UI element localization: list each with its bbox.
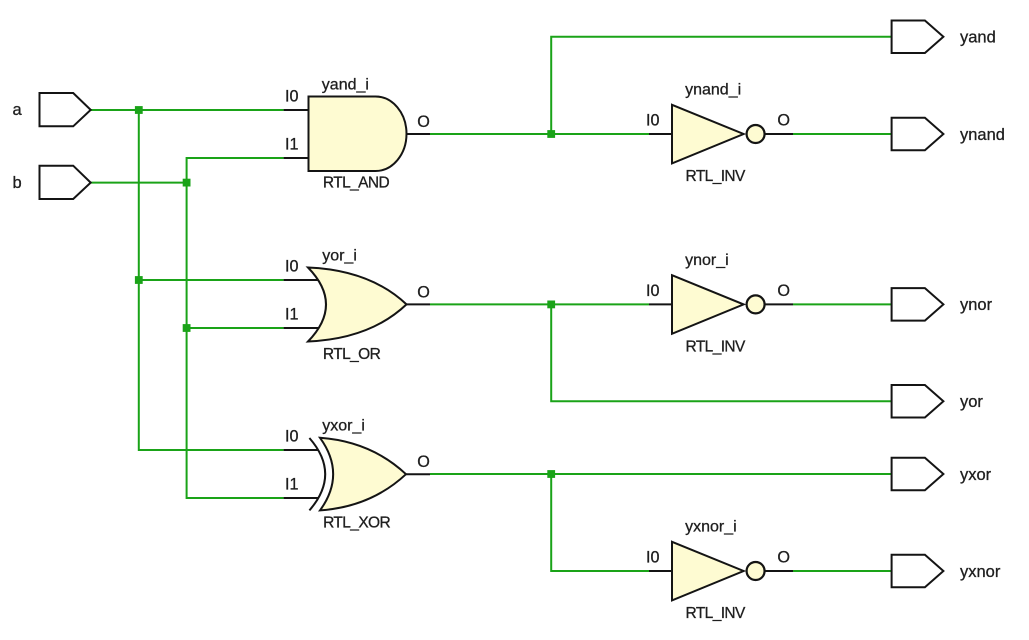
wire yxnor output to yxnor port (793, 570, 892, 572)
bubble ynand (747, 125, 765, 143)
pin ynor O (765, 303, 793, 305)
svg-text:O: O (777, 112, 790, 130)
svg-text:yor: yor (960, 393, 983, 411)
node junction yor net (547, 301, 555, 309)
svg-text:I0: I0 (285, 258, 299, 276)
wire XOR output to yxor port (430, 473, 892, 475)
svg-text:ynor: ynor (960, 296, 993, 314)
wire net b horizontal (91, 182, 187, 184)
pin yxnor I0 (649, 570, 672, 572)
node junction net b (183, 179, 191, 187)
wire net a to OR I0 (139, 279, 284, 281)
wire net b vertical with AND I1 and XOR I1 branches (187, 158, 284, 498)
node junction net b to OR (183, 324, 191, 332)
wire net a vertical with XOR I0 branch (139, 110, 284, 450)
svg-text:RTL_AND: RTL_AND (323, 175, 390, 192)
svg-text:I0: I0 (285, 88, 299, 106)
svg-text:I0: I0 (646, 112, 660, 130)
wire AND output to ynand I0 (430, 133, 649, 135)
wire AND output branch up to yand port (551, 37, 891, 134)
svg-text:RTL_OR: RTL_OR (323, 346, 381, 363)
pin XOR I1 (284, 497, 319, 499)
wire ynor output to ynor port (793, 303, 892, 305)
svg-text:I1: I1 (285, 306, 299, 324)
wire net a horizontal to AND I0 (91, 109, 284, 111)
svg-text:yxnor: yxnor (960, 563, 1001, 581)
svg-text:O: O (417, 113, 430, 131)
svg-text:yor_i: yor_i (322, 248, 357, 265)
svg-text:ynand_i: ynand_i (685, 82, 741, 99)
svg-text:I0: I0 (646, 282, 660, 300)
svg-text:b: b (13, 174, 22, 192)
svg-text:yand_i: yand_i (322, 77, 369, 94)
svg-text:RTL_INV: RTL_INV (686, 605, 747, 622)
svg-text:O: O (417, 453, 430, 471)
wire OR output to ynor I0 (430, 303, 649, 305)
svg-text:a: a (13, 101, 23, 119)
node junction yxor net (547, 470, 555, 478)
bubble yxnor (747, 562, 765, 580)
svg-text:O: O (777, 282, 790, 300)
pin ynand I0 (649, 133, 672, 135)
pin ynor I0 (649, 303, 672, 305)
xor detached input arc (309, 438, 325, 510)
wire OR output branch down to yor port (551, 304, 891, 401)
pin yxnor O (765, 570, 793, 572)
svg-text:O: O (417, 283, 430, 301)
pin AND O (407, 133, 431, 135)
svg-text:yxor: yxor (960, 466, 992, 484)
pin OR I1 (284, 327, 320, 329)
svg-text:RTL_XOR: RTL_XOR (323, 514, 390, 531)
bubble ynor (747, 295, 765, 313)
wire ynand output to ynand port (793, 133, 892, 135)
svg-text:RTL_INV: RTL_INV (686, 168, 747, 185)
pin AND I0 (284, 109, 309, 111)
pin OR I0 (284, 279, 319, 281)
svg-text:RTL_INV: RTL_INV (686, 338, 747, 355)
pin XOR O (406, 473, 430, 475)
pin XOR I0 (284, 449, 319, 451)
wire XOR output branch down to yxnor I0 (551, 474, 649, 571)
svg-text:yxor_i: yxor_i (322, 417, 365, 434)
pin AND I1 (284, 157, 309, 159)
pin OR O (407, 303, 431, 305)
svg-text:I0: I0 (285, 428, 299, 446)
wire net b to OR I1 (187, 327, 284, 329)
svg-text:yand: yand (960, 29, 996, 47)
svg-text:I1: I1 (285, 136, 299, 154)
svg-text:ynor_i: ynor_i (685, 252, 729, 269)
svg-text:O: O (777, 549, 790, 567)
node junction yand net (547, 130, 555, 138)
svg-text:ynand: ynand (960, 126, 1005, 144)
svg-text:I1: I1 (285, 476, 299, 494)
node junction net a to OR (135, 276, 143, 284)
node junction net a (135, 106, 143, 114)
svg-text:I0: I0 (646, 549, 660, 567)
pin ynand O (765, 133, 793, 135)
svg-text:yxnor_i: yxnor_i (685, 519, 737, 536)
